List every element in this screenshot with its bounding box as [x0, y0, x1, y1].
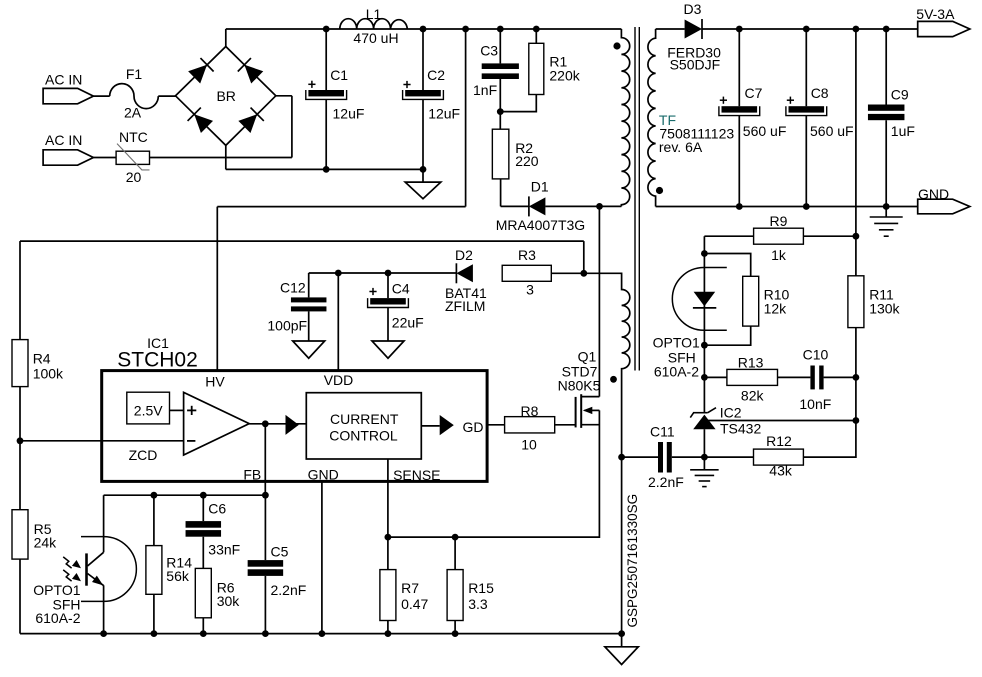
- svg-text:GND: GND: [308, 466, 339, 482]
- svg-text:MRA4007T3G: MRA4007T3G: [496, 217, 585, 233]
- svg-text:C12: C12: [280, 280, 306, 296]
- svg-text:F1: F1: [126, 66, 143, 82]
- svg-text:1nF: 1nF: [473, 82, 497, 98]
- svg-text:IC2: IC2: [720, 405, 742, 421]
- svg-text:D1: D1: [531, 178, 549, 194]
- svg-text:220k: 220k: [549, 68, 580, 84]
- svg-text:L1: L1: [366, 6, 382, 22]
- svg-text:CONTROL: CONTROL: [329, 428, 398, 444]
- svg-text:C8: C8: [811, 85, 829, 101]
- svg-text:22uF: 22uF: [392, 315, 424, 331]
- svg-text:R8: R8: [521, 403, 539, 419]
- svg-text:3: 3: [526, 282, 534, 298]
- svg-text:C7: C7: [745, 85, 763, 101]
- svg-text:220: 220: [515, 153, 539, 169]
- svg-text:C11: C11: [650, 424, 675, 440]
- svg-text:CURRENT: CURRENT: [330, 411, 399, 427]
- svg-text:C9: C9: [891, 86, 909, 102]
- svg-text:OPTO1: OPTO1: [653, 335, 700, 351]
- svg-text:R12: R12: [766, 433, 792, 449]
- svg-text:5V-3A: 5V-3A: [916, 6, 955, 22]
- svg-text:D2: D2: [455, 247, 473, 263]
- svg-text:HV: HV: [205, 373, 225, 389]
- svg-text:VDD: VDD: [324, 372, 354, 388]
- svg-text:470 uH: 470 uH: [353, 30, 398, 46]
- svg-text:30k: 30k: [217, 593, 241, 609]
- svg-text:ZFILM: ZFILM: [445, 298, 485, 314]
- svg-text:43k: 43k: [769, 463, 793, 479]
- svg-text:10nF: 10nF: [799, 396, 831, 412]
- svg-text:12uF: 12uF: [333, 105, 365, 121]
- svg-text:24k: 24k: [34, 534, 58, 550]
- svg-text:0.47: 0.47: [401, 596, 428, 612]
- svg-text:100k: 100k: [33, 366, 64, 382]
- svg-text:STCH02: STCH02: [117, 349, 198, 372]
- svg-text:R13: R13: [738, 354, 764, 370]
- svg-text:2.2nF: 2.2nF: [271, 582, 307, 598]
- svg-text:82k: 82k: [741, 388, 765, 404]
- svg-text:R3: R3: [518, 247, 536, 263]
- svg-text:C10: C10: [803, 347, 829, 363]
- svg-text:C3: C3: [480, 43, 498, 59]
- svg-text:C6: C6: [208, 501, 226, 517]
- svg-text:2A: 2A: [124, 105, 142, 121]
- svg-text:56k: 56k: [166, 568, 190, 584]
- svg-text:GD: GD: [463, 419, 484, 435]
- svg-text:10: 10: [521, 436, 537, 452]
- svg-text:130k: 130k: [869, 301, 900, 317]
- svg-text:R4: R4: [33, 351, 51, 367]
- svg-text:C1: C1: [330, 67, 348, 83]
- svg-text:AC IN: AC IN: [45, 132, 82, 148]
- svg-text:610A-2: 610A-2: [35, 610, 80, 626]
- svg-text:R15: R15: [468, 580, 494, 596]
- svg-text:20: 20: [126, 169, 142, 185]
- svg-text:Q1: Q1: [578, 348, 597, 364]
- svg-text:GSPG2507161330SG: GSPG2507161330SG: [625, 494, 640, 628]
- svg-text:560 uF: 560 uF: [810, 123, 854, 139]
- svg-text:BR: BR: [216, 88, 235, 104]
- svg-text:3.3: 3.3: [468, 596, 488, 612]
- svg-text:TS432: TS432: [720, 421, 761, 437]
- svg-text:2.5V: 2.5V: [134, 402, 163, 418]
- svg-text:12uF: 12uF: [428, 105, 460, 121]
- svg-text:FB: FB: [243, 466, 261, 482]
- svg-text:N80K5: N80K5: [558, 377, 601, 393]
- svg-text:S50DJF: S50DJF: [670, 57, 721, 73]
- svg-text:1k: 1k: [771, 247, 787, 263]
- svg-text:C4: C4: [392, 281, 410, 297]
- svg-text:1uF: 1uF: [891, 123, 915, 139]
- svg-text:AC IN: AC IN: [45, 72, 82, 88]
- svg-text:ZCD: ZCD: [129, 447, 158, 463]
- svg-text:rev. 6A: rev. 6A: [659, 139, 703, 155]
- svg-text:NTC: NTC: [119, 129, 148, 145]
- svg-text:GND: GND: [918, 186, 949, 202]
- svg-text:D3: D3: [684, 1, 702, 17]
- svg-text:C2: C2: [427, 67, 445, 83]
- svg-text:100pF: 100pF: [267, 318, 307, 334]
- svg-text:C5: C5: [271, 544, 289, 560]
- svg-text:2.2nF: 2.2nF: [648, 474, 684, 490]
- svg-text:SENSE: SENSE: [393, 467, 440, 483]
- svg-text:R7: R7: [401, 580, 419, 596]
- svg-text:560 uF: 560 uF: [743, 123, 787, 139]
- svg-text:33nF: 33nF: [208, 542, 240, 558]
- svg-text:R9: R9: [770, 213, 788, 229]
- svg-text:610A-2: 610A-2: [654, 364, 699, 380]
- svg-text:12k: 12k: [764, 301, 788, 317]
